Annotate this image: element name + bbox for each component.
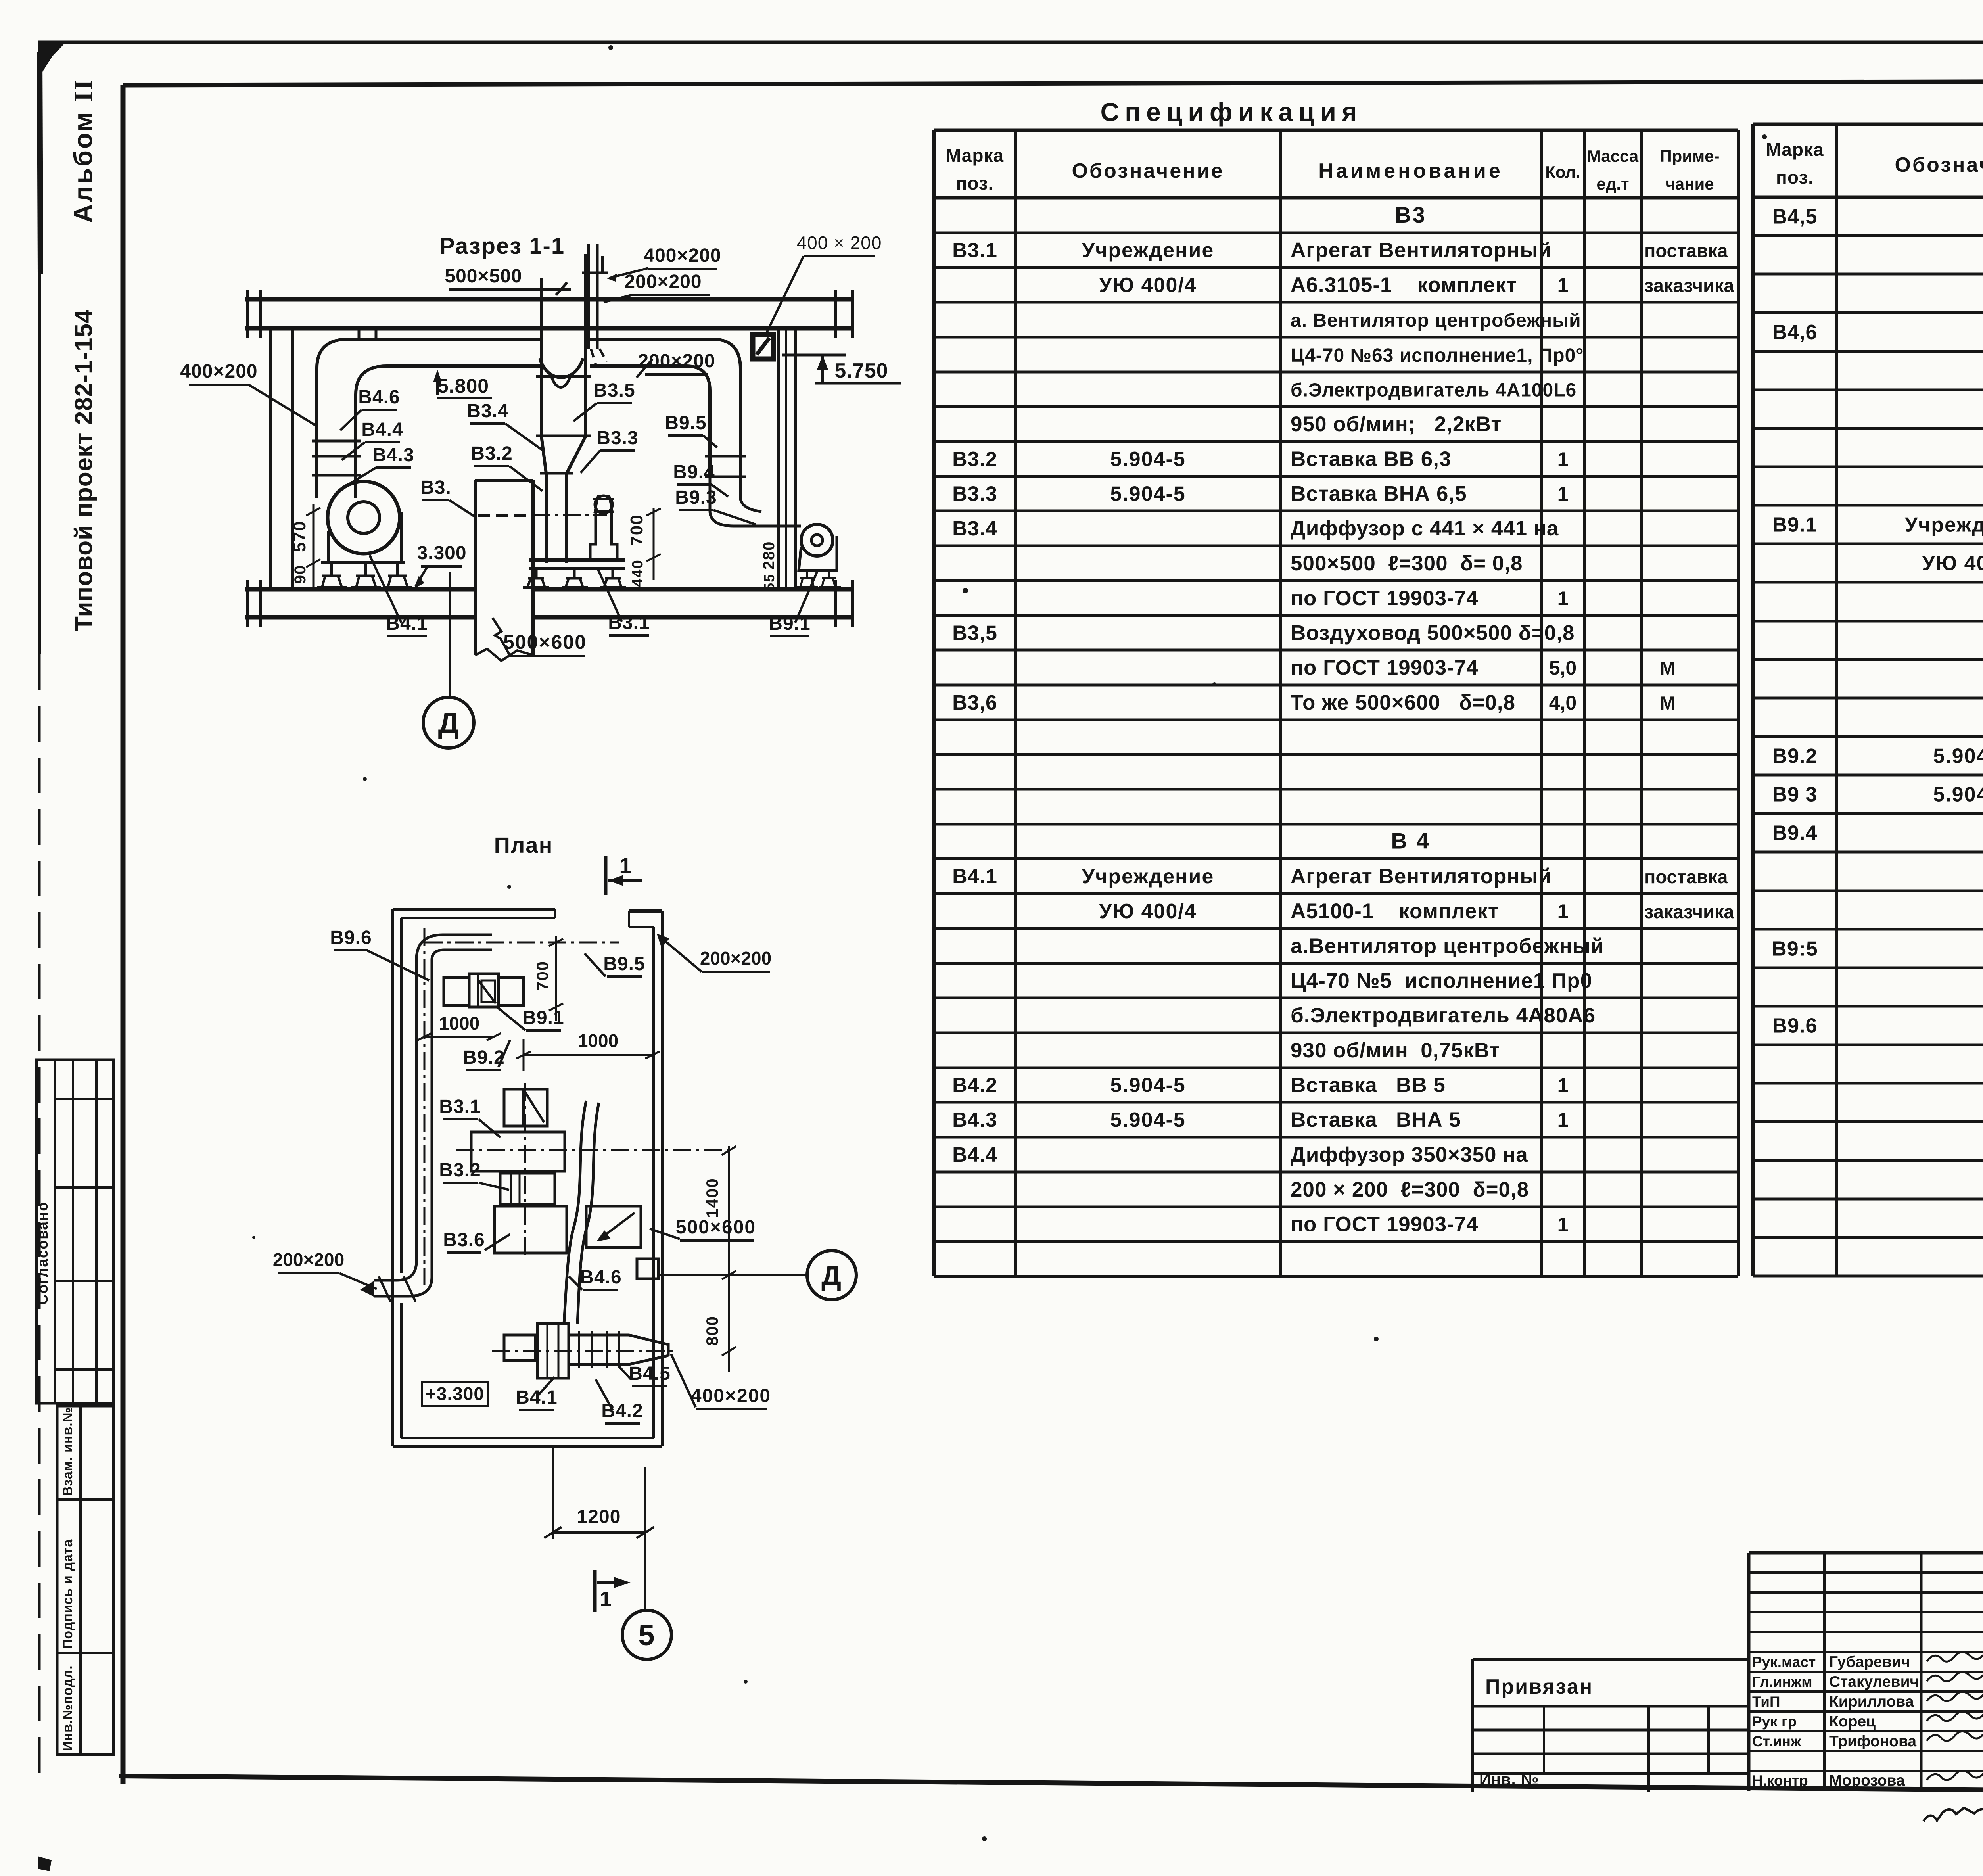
label 200x200 (plan left)	[273, 1249, 377, 1289]
svg-text:Обозначение: Обозначение	[1895, 153, 1983, 176]
svg-text:ТиП: ТиП	[1752, 1694, 1780, 1710]
vertical dim 570 / 90	[290, 504, 320, 589]
svg-text:В4.6: В4.6	[358, 387, 400, 408]
label В9.1	[769, 572, 817, 636]
svg-text:М: М	[1644, 692, 1675, 714]
svg-text:Типовой проект 282-1-154: Типовой проект 282-1-154	[70, 309, 98, 631]
dim 1000 (plan upper)	[417, 1013, 501, 1040]
svg-text:Учреждение: Учреждение	[1082, 239, 1214, 262]
dim 700 (plan)	[533, 936, 563, 1021]
svg-text:5.904-5: 5.904-5	[1933, 783, 1983, 806]
svg-text:280: 280	[760, 541, 778, 570]
svg-text:В3.4: В3.4	[952, 517, 997, 540]
svg-text:В3.5: В3.5	[593, 380, 635, 401]
svg-text:5.904-5: 5.904-5	[1110, 483, 1185, 506]
svg-text:Н.контр: Н.контр	[1752, 1772, 1808, 1789]
svg-text:Агрегат Вентиляторный: Агрегат Вентиляторный	[1291, 865, 1551, 888]
inner frame	[123, 81, 1983, 85]
stamp block Взам.инв / Подпись и дата / Инв.№ подл	[57, 1406, 113, 1755]
plan outer wall	[393, 909, 662, 1446]
svg-text:В9.1: В9.1	[1772, 514, 1818, 537]
svg-text:Ц4-70 №5 исполнение1 Пр0: Ц4-70 №5 исполнение1 Пр0	[1291, 969, 1592, 993]
label В4.2 (plan)	[596, 1379, 643, 1423]
svg-text:по ГОСТ 19903-74: по ГОСТ 19903-74	[1291, 587, 1479, 610]
svg-text:Учреждение: Учреждение	[1905, 514, 1983, 537]
ceiling slab	[245, 290, 853, 338]
svg-text:Ц4-70 №63 исполнение1, Пр0°: Ц4-70 №63 исполнение1, Пр0°	[1291, 345, 1584, 366]
plan inner wall	[401, 909, 654, 1438]
label 500x600 with break leader	[493, 618, 587, 656]
edge mark bottom-left	[38, 1856, 52, 1871]
svg-text:В 4: В 4	[1391, 829, 1430, 854]
svg-text:В3,6: В3,6	[952, 691, 997, 714]
label В9.5 (plan)	[585, 953, 645, 976]
svg-text:Вставка ВВ 5: Вставка ВВ 5	[1291, 1074, 1446, 1097]
svg-text:В3.2: В3.2	[471, 443, 512, 464]
junction of vertical duct into horizontal run	[540, 358, 583, 378]
svg-text:заказчика: заказчика	[1644, 901, 1734, 922]
svg-text:В3.1: В3.1	[608, 612, 650, 633]
dim 1000 (plan lower)	[516, 1030, 660, 1071]
svg-text:В4.1: В4.1	[386, 613, 428, 634]
svg-text:В9.2: В9.2	[1772, 745, 1818, 768]
duct B3 500x600 through floor	[475, 480, 607, 661]
label В3.6 (plan)	[443, 1230, 510, 1253]
svg-text:В3.: В3.	[420, 477, 451, 498]
svg-text:55: 55	[761, 574, 777, 591]
svg-text:1000: 1000	[578, 1030, 618, 1051]
right wall	[779, 328, 796, 589]
svg-text:Агрегат Вентиляторный: Агрегат Вентиляторный	[1291, 239, 1551, 262]
svg-text:поставка: поставка	[1644, 240, 1728, 261]
callout circle Д (section)	[423, 572, 474, 748]
svg-text:1: 1	[1557, 587, 1569, 610]
svg-text:+3.300: +3.300	[426, 1383, 484, 1404]
svg-text:5,0: 5,0	[1549, 657, 1577, 679]
svg-text:400×200: 400×200	[180, 361, 257, 382]
svg-text:1: 1	[1557, 1109, 1569, 1131]
central vertical duct B3.5 500x500	[536, 278, 591, 563]
label В4.1 (plan)	[516, 1377, 557, 1410]
svg-text:В3,5: В3,5	[952, 622, 997, 645]
svg-text:Рук.маст: Рук.маст	[1752, 1654, 1816, 1670]
svg-text:В9.5: В9.5	[603, 953, 645, 974]
svg-text:Альбом II: Альбом II	[68, 78, 98, 223]
dim 500x500	[445, 266, 571, 295]
svg-text:Учреждение: Учреждение	[1082, 865, 1214, 888]
svg-text:М: М	[1644, 658, 1675, 679]
svg-text:Воздуховод 500×500 δ=0,8: Воздуховод 500×500 δ=0,8	[1291, 621, 1575, 645]
svg-text:90: 90	[292, 565, 309, 584]
svg-text:Марка: Марка	[1766, 139, 1824, 160]
svg-text:800: 800	[703, 1316, 721, 1346]
motor on base B3.1	[590, 496, 617, 560]
scan specks	[608, 45, 613, 50]
fan B4.1 scroll	[321, 481, 405, 562]
label 200x200 (plan top right)	[657, 934, 771, 972]
label В9.6	[330, 927, 429, 980]
svg-text:400×200: 400×200	[644, 245, 721, 266]
svg-text:В9.1: В9.1	[522, 1007, 564, 1028]
svg-text:Д: Д	[821, 1260, 842, 1291]
svg-text:400 × 200: 400 × 200	[797, 232, 882, 253]
svg-text:В3.2: В3.2	[439, 1160, 481, 1181]
svg-text:Спецификация: Спецификация	[1100, 97, 1362, 127]
svg-text:б.Электродвигатель 4А80А6: б.Электродвигатель 4А80А6	[1291, 1004, 1596, 1027]
fan unit B9 (plan)	[444, 974, 524, 1007]
fan unit B3 (plan)	[456, 1083, 729, 1255]
svg-text:700: 700	[533, 961, 552, 991]
label В4.4	[342, 419, 403, 460]
svg-text:200 × 200 ℓ=300 δ=0,8: 200 × 200 ℓ=300 δ=0,8	[1291, 1178, 1529, 1201]
label В3.5	[573, 380, 635, 421]
floor slab	[245, 580, 853, 627]
label 500x600 (plan) with arrow	[596, 1213, 756, 1241]
label В4.6	[340, 387, 400, 430]
svg-text:В9:5: В9:5	[1772, 938, 1818, 961]
svg-text:В4.4: В4.4	[361, 419, 403, 440]
svg-text:В3.3: В3.3	[952, 483, 997, 506]
svg-text:1: 1	[1557, 274, 1569, 296]
dim 200x200 top	[604, 271, 710, 302]
svg-text:1: 1	[600, 1587, 612, 1611]
svg-text:500×500: 500×500	[445, 266, 522, 287]
svg-text:В9.6: В9.6	[330, 927, 372, 948]
svg-text:поз.: поз.	[1776, 167, 1814, 188]
svg-text:1400: 1400	[703, 1178, 721, 1218]
svg-text:Масса: Масса	[1587, 147, 1639, 165]
svg-text:5.904-5: 5.904-5	[1933, 745, 1983, 768]
svg-text:План: План	[494, 832, 553, 857]
fan unit B3.1 on vibro base	[523, 560, 626, 587]
svg-text:500×600: 500×600	[676, 1217, 756, 1238]
label 400x200 (plan)	[671, 1354, 771, 1409]
svg-text:400×200: 400×200	[691, 1385, 771, 1406]
level mark 5.800	[433, 370, 492, 398]
label В3.3	[581, 428, 639, 473]
svg-text:заказчика: заказчика	[1644, 275, 1734, 296]
specification table left	[934, 130, 1738, 1276]
svg-text:4,0: 4,0	[1549, 692, 1577, 714]
svg-text:200×200: 200×200	[273, 1249, 344, 1270]
svg-text:500×600: 500×600	[503, 631, 587, 653]
svg-text:по ГОСТ 19903-74: по ГОСТ 19903-74	[1291, 1213, 1479, 1236]
svg-text:Рук гр: Рук гр	[1752, 1713, 1797, 1730]
duct 200x200 along left wall (plan)	[360, 928, 619, 1302]
svg-text:930 об/мин 0,75кВт: 930 об/мин 0,75кВт	[1291, 1039, 1500, 1062]
svg-text:500×500 ℓ=300 δ= 0,8: 500×500 ℓ=300 δ= 0,8	[1291, 552, 1523, 575]
label В9.3	[675, 487, 756, 524]
svg-text:А6.3105-1 комплект: А6.3105-1 комплект	[1291, 273, 1517, 297]
svg-text:5.750: 5.750	[834, 359, 888, 382]
svg-text:1: 1	[1557, 1214, 1569, 1236]
label В3.2	[471, 443, 543, 491]
svg-text:В4.6: В4.6	[580, 1267, 621, 1288]
svg-text:В3: В3	[1395, 202, 1427, 227]
title block outline	[1473, 1553, 1983, 1792]
svg-text:3.300: 3.300	[417, 543, 466, 564]
svg-text:Стакулевич: Стакулевич	[1829, 1673, 1919, 1690]
svg-text:5: 5	[638, 1619, 655, 1652]
fan B9.1 scroll	[710, 478, 841, 587]
label В4.3	[348, 445, 414, 485]
svg-text:Гл.инжм: Гл.инжм	[1752, 1674, 1812, 1690]
svg-text:1: 1	[1557, 1074, 1569, 1097]
svg-text:5.800: 5.800	[437, 375, 489, 397]
svg-text:по ГОСТ 19903-74: по ГОСТ 19903-74	[1291, 656, 1479, 679]
dim 3.300	[414, 543, 467, 589]
svg-text:Губаревич: Губаревич	[1829, 1653, 1910, 1671]
svg-text:б.Электродвигатель 4А100L6: б.Электродвигатель 4А100L6	[1291, 380, 1576, 401]
label В4.6 (plan)	[569, 1267, 622, 1290]
svg-text:В9 3: В9 3	[1772, 783, 1818, 806]
svg-text:В3.1: В3.1	[439, 1096, 481, 1117]
label В9.4	[673, 462, 728, 497]
svg-text:а. Вентилятор центробежный: а. Вентилятор центробежный	[1291, 310, 1581, 331]
svg-text:700: 700	[627, 514, 646, 545]
svg-text:1: 1	[1557, 900, 1569, 923]
svg-text:Ст.инж: Ст.инж	[1752, 1733, 1801, 1749]
svg-text:В4,6: В4,6	[1772, 321, 1818, 344]
section mark 1 (top)	[606, 853, 642, 895]
svg-text:Вставка ВНА 6,5: Вставка ВНА 6,5	[1291, 482, 1467, 506]
svg-text:Кол.: Кол.	[1545, 163, 1580, 181]
svg-text:В4.2: В4.2	[601, 1400, 643, 1421]
svg-text:Инв.№подл.: Инв.№подл.	[60, 1665, 75, 1751]
svg-text:ед.т: ед.т	[1596, 175, 1629, 193]
label В9.2 (plan)	[463, 1040, 510, 1070]
svg-text:А5100-1 комплект: А5100-1 комплект	[1291, 900, 1499, 923]
svg-text:1200: 1200	[577, 1506, 621, 1527]
svg-text:В4,5: В4,5	[1772, 205, 1818, 228]
svg-text:чание: чание	[1665, 175, 1714, 193]
thin duct 400x200/200x200 near center	[582, 244, 608, 364]
fan B4.1 vibration feet	[317, 562, 412, 587]
svg-text:То же 500×600 δ=0,8: То же 500×600 δ=0,8	[1291, 691, 1515, 714]
svg-text:1: 1	[1557, 448, 1569, 470]
svg-text:1: 1	[1557, 483, 1569, 505]
svg-text:950 об/мин; 2,2кВт: 950 об/мин; 2,2кВт	[1291, 412, 1502, 436]
dim 200x200 mid right	[637, 351, 715, 378]
svg-text:1: 1	[619, 853, 632, 878]
svg-text:УЮ 400/4: УЮ 400/4	[1099, 274, 1197, 297]
svg-text:5.904-5: 5.904-5	[1110, 448, 1185, 471]
elevation +3.300 box	[422, 1382, 488, 1406]
label В9.1 (plan)	[497, 1007, 564, 1030]
svg-text:Кириллова: Кириллова	[1829, 1693, 1914, 1710]
svg-text:В9.4: В9.4	[673, 462, 715, 483]
callout circle 5	[622, 1610, 671, 1659]
svg-text:Обозначение: Обозначение	[1072, 159, 1224, 182]
label В9.5	[665, 412, 717, 447]
svg-text:Трифонова: Трифонова	[1829, 1733, 1916, 1750]
dim 400x200 top	[607, 245, 721, 282]
svg-text:УЮ 400/4: УЮ 400/4	[1099, 900, 1197, 923]
svg-text:В9.3: В9.3	[675, 487, 717, 508]
svg-text:В4.5: В4.5	[629, 1363, 670, 1384]
svg-text:В3.4: В3.4	[467, 401, 508, 422]
svg-text:440: 440	[629, 559, 646, 587]
dim 400x200 left	[180, 361, 315, 425]
vertical dim 280 / 55 right	[760, 541, 778, 591]
wall grille + callout Д (plan)	[637, 1251, 856, 1300]
svg-text:В3.2: В3.2	[952, 448, 997, 471]
fan unit B4 (plan)	[492, 1324, 674, 1378]
svg-text:200×200: 200×200	[624, 271, 702, 292]
svg-text:Вставка ВНА 5: Вставка ВНА 5	[1291, 1108, 1461, 1132]
stamp block Согласовано	[35, 1060, 113, 1403]
label В4.1	[370, 555, 428, 636]
svg-text:УЮ 400/4: УЮ 400/4	[1922, 552, 1983, 575]
svg-text:В9.5: В9.5	[665, 412, 706, 434]
svg-text:1000: 1000	[439, 1013, 479, 1034]
outer sheet border left	[38, 42, 41, 654]
label В3.1	[598, 570, 650, 635]
label В4.5 (plan)	[618, 1363, 671, 1386]
flanges on B9 branch duct	[705, 456, 746, 477]
dim 400x200 far right	[765, 232, 882, 335]
svg-text:а.Вентилятор центробежный: а.Вентилятор центробежный	[1291, 934, 1604, 958]
vertical dim 700 / 440	[627, 508, 661, 587]
svg-text:Диффузор 350×350 на: Диффузор 350×350 на	[1291, 1143, 1528, 1166]
svg-text:В4.3: В4.3	[952, 1109, 997, 1132]
svg-text:Взам. инв.№: Взам. инв.№	[60, 1407, 75, 1496]
svg-text:Диффузор с 441 × 441 на: Диффузор с 441 × 441 на	[1291, 517, 1559, 540]
svg-text:В3.3: В3.3	[596, 428, 638, 449]
corner blob top-left	[38, 41, 67, 75]
label В3.	[420, 477, 474, 516]
flanges on B4 branch duct	[312, 441, 361, 475]
svg-text:В3.1: В3.1	[952, 239, 997, 262]
svg-text:Разрез 1-1: Разрез 1-1	[439, 233, 565, 259]
signature table	[1749, 1553, 1983, 1791]
svg-text:Наименование: Наименование	[1318, 159, 1503, 182]
svg-text:Морозова: Морозова	[1829, 1772, 1905, 1789]
section mark 1 (bottom)	[595, 1570, 631, 1612]
svg-text:Согласовано: Согласовано	[35, 1201, 51, 1305]
duct B4.6 curvy (plan)	[564, 1101, 599, 1324]
grille square on right wall	[753, 334, 773, 359]
label В3.4	[467, 401, 544, 451]
vertical dim 1400/800 (plan)	[703, 1146, 736, 1372]
svg-text:Корец: Корец	[1829, 1713, 1876, 1730]
svg-text:570: 570	[290, 520, 309, 552]
svg-text:5.904-5: 5.904-5	[1110, 1074, 1185, 1097]
privyazki block	[1473, 1675, 1749, 1792]
svg-text:200×200: 200×200	[700, 948, 771, 969]
svg-text:поставка: поставка	[1644, 866, 1728, 887]
outer sheet border top	[38, 41, 1983, 44]
dim 1200 below plan	[544, 1448, 654, 1609]
svg-text:Марка: Марка	[946, 145, 1004, 166]
svg-text:В4.3: В4.3	[372, 445, 414, 466]
level mark 5.750	[782, 355, 901, 383]
svg-text:В9.1: В9.1	[769, 613, 810, 634]
svg-text:В4.2: В4.2	[952, 1074, 997, 1097]
svg-text:Вставка ВВ 6,3: Вставка ВВ 6,3	[1291, 447, 1451, 471]
svg-text:Инв. №: Инв. №	[1479, 1771, 1539, 1788]
hanger rods ceiling to duct	[359, 328, 376, 339]
label В3.1 (plan)	[439, 1096, 501, 1137]
svg-text:В9.6: В9.6	[1772, 1015, 1818, 1038]
svg-text:поз.: поз.	[956, 173, 994, 194]
svg-text:В4.1: В4.1	[952, 865, 997, 888]
svg-text:Приме-: Приме-	[1660, 147, 1719, 165]
svg-text:Подпись и дата: Подпись и дата	[60, 1539, 75, 1649]
svg-text:В4.1: В4.1	[516, 1387, 557, 1408]
specification table right	[1753, 124, 1983, 1276]
left wall	[270, 328, 292, 589]
svg-text:Д: Д	[438, 706, 459, 739]
svg-text:5.904-5: 5.904-5	[1110, 1109, 1185, 1132]
svg-text:В4.4: В4.4	[952, 1143, 997, 1166]
svg-text:В9.4: В9.4	[1772, 822, 1818, 845]
handwritten inventory mark	[1924, 1808, 1983, 1821]
label В3.2 (plan)	[439, 1160, 509, 1190]
svg-text:В3.6: В3.6	[443, 1230, 485, 1251]
horizontal duct 200x200 along ceiling with elbows	[317, 339, 740, 498]
svg-text:Привязан: Привязан	[1485, 1675, 1593, 1698]
